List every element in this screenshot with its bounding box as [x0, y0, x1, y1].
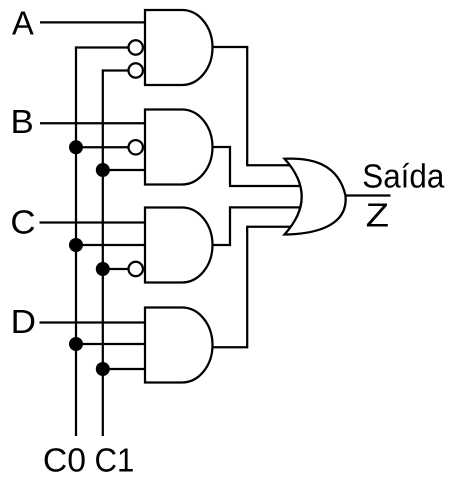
junction C1/U3 [96, 262, 110, 276]
svg-text:Z: Z [366, 198, 389, 235]
junction C0/U3 [69, 238, 83, 252]
wire C0 to U2 pin2 [76, 146, 131, 148]
inverter bubble U1 pin2 [129, 40, 143, 54]
wire U3 output to OR input 3 [213, 207, 306, 245]
AND gate U2 [145, 110, 212, 185]
svg-text:C1: C1 [95, 443, 135, 480]
wire C1 to U4 pin3 [103, 368, 150, 370]
wire input D [40, 321, 151, 323]
wire output Z [345, 194, 391, 196]
junction C0/U2 [69, 140, 83, 154]
svg-text:C: C [10, 205, 35, 242]
wire C0 to U4 pin2 [76, 343, 150, 345]
wire C1 to U3 pin3 [103, 268, 131, 270]
wire C0 to U3 pin2 [76, 244, 150, 246]
wire input C [40, 221, 151, 223]
junction C0/U4 [69, 337, 83, 351]
svg-text:D: D [11, 304, 36, 341]
svg-text:Saída: Saída [362, 159, 444, 196]
junction C1/U4 [96, 362, 110, 376]
svg-text:B: B [11, 104, 34, 141]
AND gate U1 [145, 10, 212, 85]
wire C1 to U2 pin3 [103, 169, 150, 171]
wire U2 output to OR input 2 [213, 147, 306, 186]
svg-text:A: A [12, 5, 34, 42]
wire net C0 vertical [76, 48, 131, 437]
OR gate U5 [285, 159, 346, 235]
svg-text:C0: C0 [43, 443, 86, 480]
wire input A [40, 21, 150, 23]
wire input B [40, 122, 150, 124]
wire U1 output to OR input 1 [213, 47, 306, 165]
AND gate U3 [145, 208, 212, 283]
inverter bubble U3 pin3 [129, 262, 143, 276]
inverter bubble U2 pin2 [129, 140, 143, 154]
AND gate U4 [145, 308, 212, 383]
wire U4 output to OR input 4 [211, 227, 305, 348]
wire net C1 vertical [103, 71, 131, 437]
junction C1/U2 [96, 163, 110, 177]
inverter bubble U1 pin3 [129, 63, 143, 77]
